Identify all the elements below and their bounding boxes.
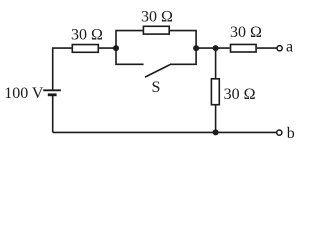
svg-text:30 Ω: 30 Ω [141, 8, 173, 25]
battery V1 negative plate [48, 93, 57, 96]
switch S blade (open) [145, 65, 170, 78]
node junction dot left of parallel block [113, 45, 119, 51]
node junction dot bottom of R3 [213, 129, 219, 135]
svg-text:b: b [287, 125, 295, 142]
resistor R1 30 ohm body [72, 45, 98, 53]
resistor R4 30 ohm body (to terminal a) [231, 44, 257, 52]
wire left side of parallel loop (switch contact to left vertical to R2) [116, 31, 144, 65]
wire right side of parallel loop (R2 to right vertical to switch side) [170, 31, 196, 65]
battery V1 positive plate [43, 89, 61, 91]
svg-text:100 V: 100 V [4, 85, 44, 102]
terminal b open circle [277, 130, 282, 135]
svg-text:a: a [286, 39, 293, 56]
wire battery negative terminal down [52, 95, 54, 133]
wire R1 to node A [99, 47, 116, 49]
svg-text:30 Ω: 30 Ω [71, 27, 103, 44]
resistor R3 30 ohm body (vertical) [211, 79, 219, 105]
wire R4 to terminal a [257, 47, 277, 49]
wire node A2 to R4 [196, 47, 230, 49]
node junction dot top of R3 [213, 45, 219, 51]
wire from battery positive terminal up and right to R1 [53, 48, 72, 90]
wire bottom return [53, 131, 277, 133]
svg-text:30 Ω: 30 Ω [230, 24, 262, 41]
terminal a open circle [277, 46, 282, 51]
resistor R2 30 ohm body (parallel with switch) [143, 26, 169, 34]
svg-text:S: S [152, 79, 161, 96]
svg-text:30 Ω: 30 Ω [224, 86, 256, 103]
node junction dot right of parallel block [193, 45, 199, 51]
wire node B down to R3 [215, 48, 217, 78]
wire R3 down to bottom node [215, 106, 217, 133]
